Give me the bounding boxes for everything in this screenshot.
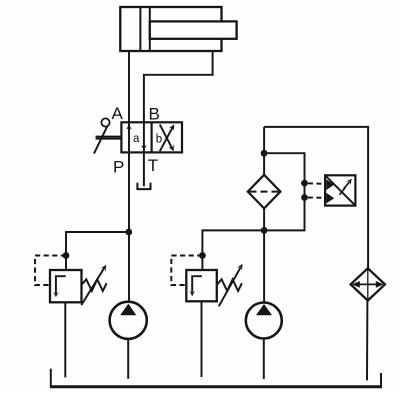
relief valve RV2 internal arrow bbox=[189, 276, 202, 296]
node label P bbox=[113, 158, 124, 177]
cylinder C (double-acting) body bbox=[120, 7, 221, 51]
junction pilot tap RV2 bbox=[199, 252, 206, 259]
pilot line (dashed) to switch upper bbox=[308, 182, 326, 185]
svg-text:b: b bbox=[156, 134, 162, 146]
wire RV1 drain to tank bbox=[64, 302, 66, 377]
relief valve RV1 internal arrow bbox=[53, 276, 66, 297]
wire cooler to tank bbox=[366, 301, 368, 381]
valve V1 position b crossed arrows bbox=[156, 123, 177, 153]
valve V1 lever actuator bbox=[94, 118, 121, 153]
wire cylinder rod-end to valve port B bbox=[144, 51, 213, 122]
directional valve V1 (4/2 way) body bbox=[121, 122, 182, 152]
svg-text:A: A bbox=[112, 104, 124, 123]
relief valve RV2 body bbox=[186, 270, 217, 301]
wire sensing loop around filter bbox=[264, 153, 304, 230]
wire top run to cooler branch bbox=[264, 127, 368, 268]
junction on P line bbox=[125, 229, 132, 236]
pilot line (dashed) to RV1 bbox=[35, 256, 66, 286]
junction sensor tap downstream bbox=[301, 194, 308, 201]
wire branch to relief valve RV1 bbox=[66, 232, 129, 270]
pilot line (dashed) to RV2 bbox=[171, 256, 202, 286]
svg-text:T: T bbox=[148, 156, 158, 175]
wire supply line pump P2 up through filter bbox=[263, 127, 265, 303]
junction sensor tap upstream bbox=[301, 180, 308, 187]
cooler HX1 bbox=[351, 268, 385, 300]
svg-text:P: P bbox=[113, 158, 124, 177]
valve V1 position a flow arrows bbox=[126, 122, 147, 152]
junction pilot tap RV1 bbox=[63, 252, 70, 259]
switch S1 pilot triangles bbox=[326, 179, 334, 203]
cylinder rod bbox=[150, 21, 237, 38]
tank T1 (reservoir) bbox=[50, 369, 382, 387]
wire valve T port to tank bbox=[143, 152, 145, 186]
svg-text:a: a bbox=[133, 133, 140, 145]
wire pump P1 suction bbox=[127, 339, 129, 379]
tank symbol at valve T bbox=[137, 183, 150, 189]
wire cylinder cap-end to valve port A bbox=[128, 51, 130, 122]
relief valve RV1 adjustment arrow bbox=[81, 263, 109, 305]
wire RV2 drain to tank bbox=[201, 301, 203, 377]
svg-text:B: B bbox=[149, 104, 160, 123]
relief valve RV2 adjustment arrow bbox=[219, 262, 245, 306]
cylinder piston bbox=[140, 7, 149, 51]
relief valve RV1 body bbox=[50, 270, 82, 302]
junction above filter bbox=[261, 150, 268, 157]
wire P supply line (valve P to pump P1) bbox=[128, 152, 130, 301]
differential pressure switch S1 body bbox=[325, 175, 355, 205]
filter F1 bbox=[248, 175, 281, 209]
pump P2 bbox=[246, 303, 282, 339]
wire pump P2 suction bbox=[263, 339, 265, 380]
wire branch to relief valve RV2 bbox=[202, 230, 264, 270]
node label A bbox=[112, 104, 124, 123]
pilot line (dashed) to switch lower bbox=[308, 197, 326, 199]
node label B bbox=[149, 104, 160, 123]
switch S1 actuation arrow bbox=[340, 177, 355, 195]
relief valve RV2 spring bbox=[217, 279, 242, 291]
node label T bbox=[148, 156, 158, 175]
pump P1 bbox=[110, 302, 147, 339]
relief valve RV1 spring bbox=[82, 279, 107, 291]
junction below filter bbox=[261, 227, 268, 234]
